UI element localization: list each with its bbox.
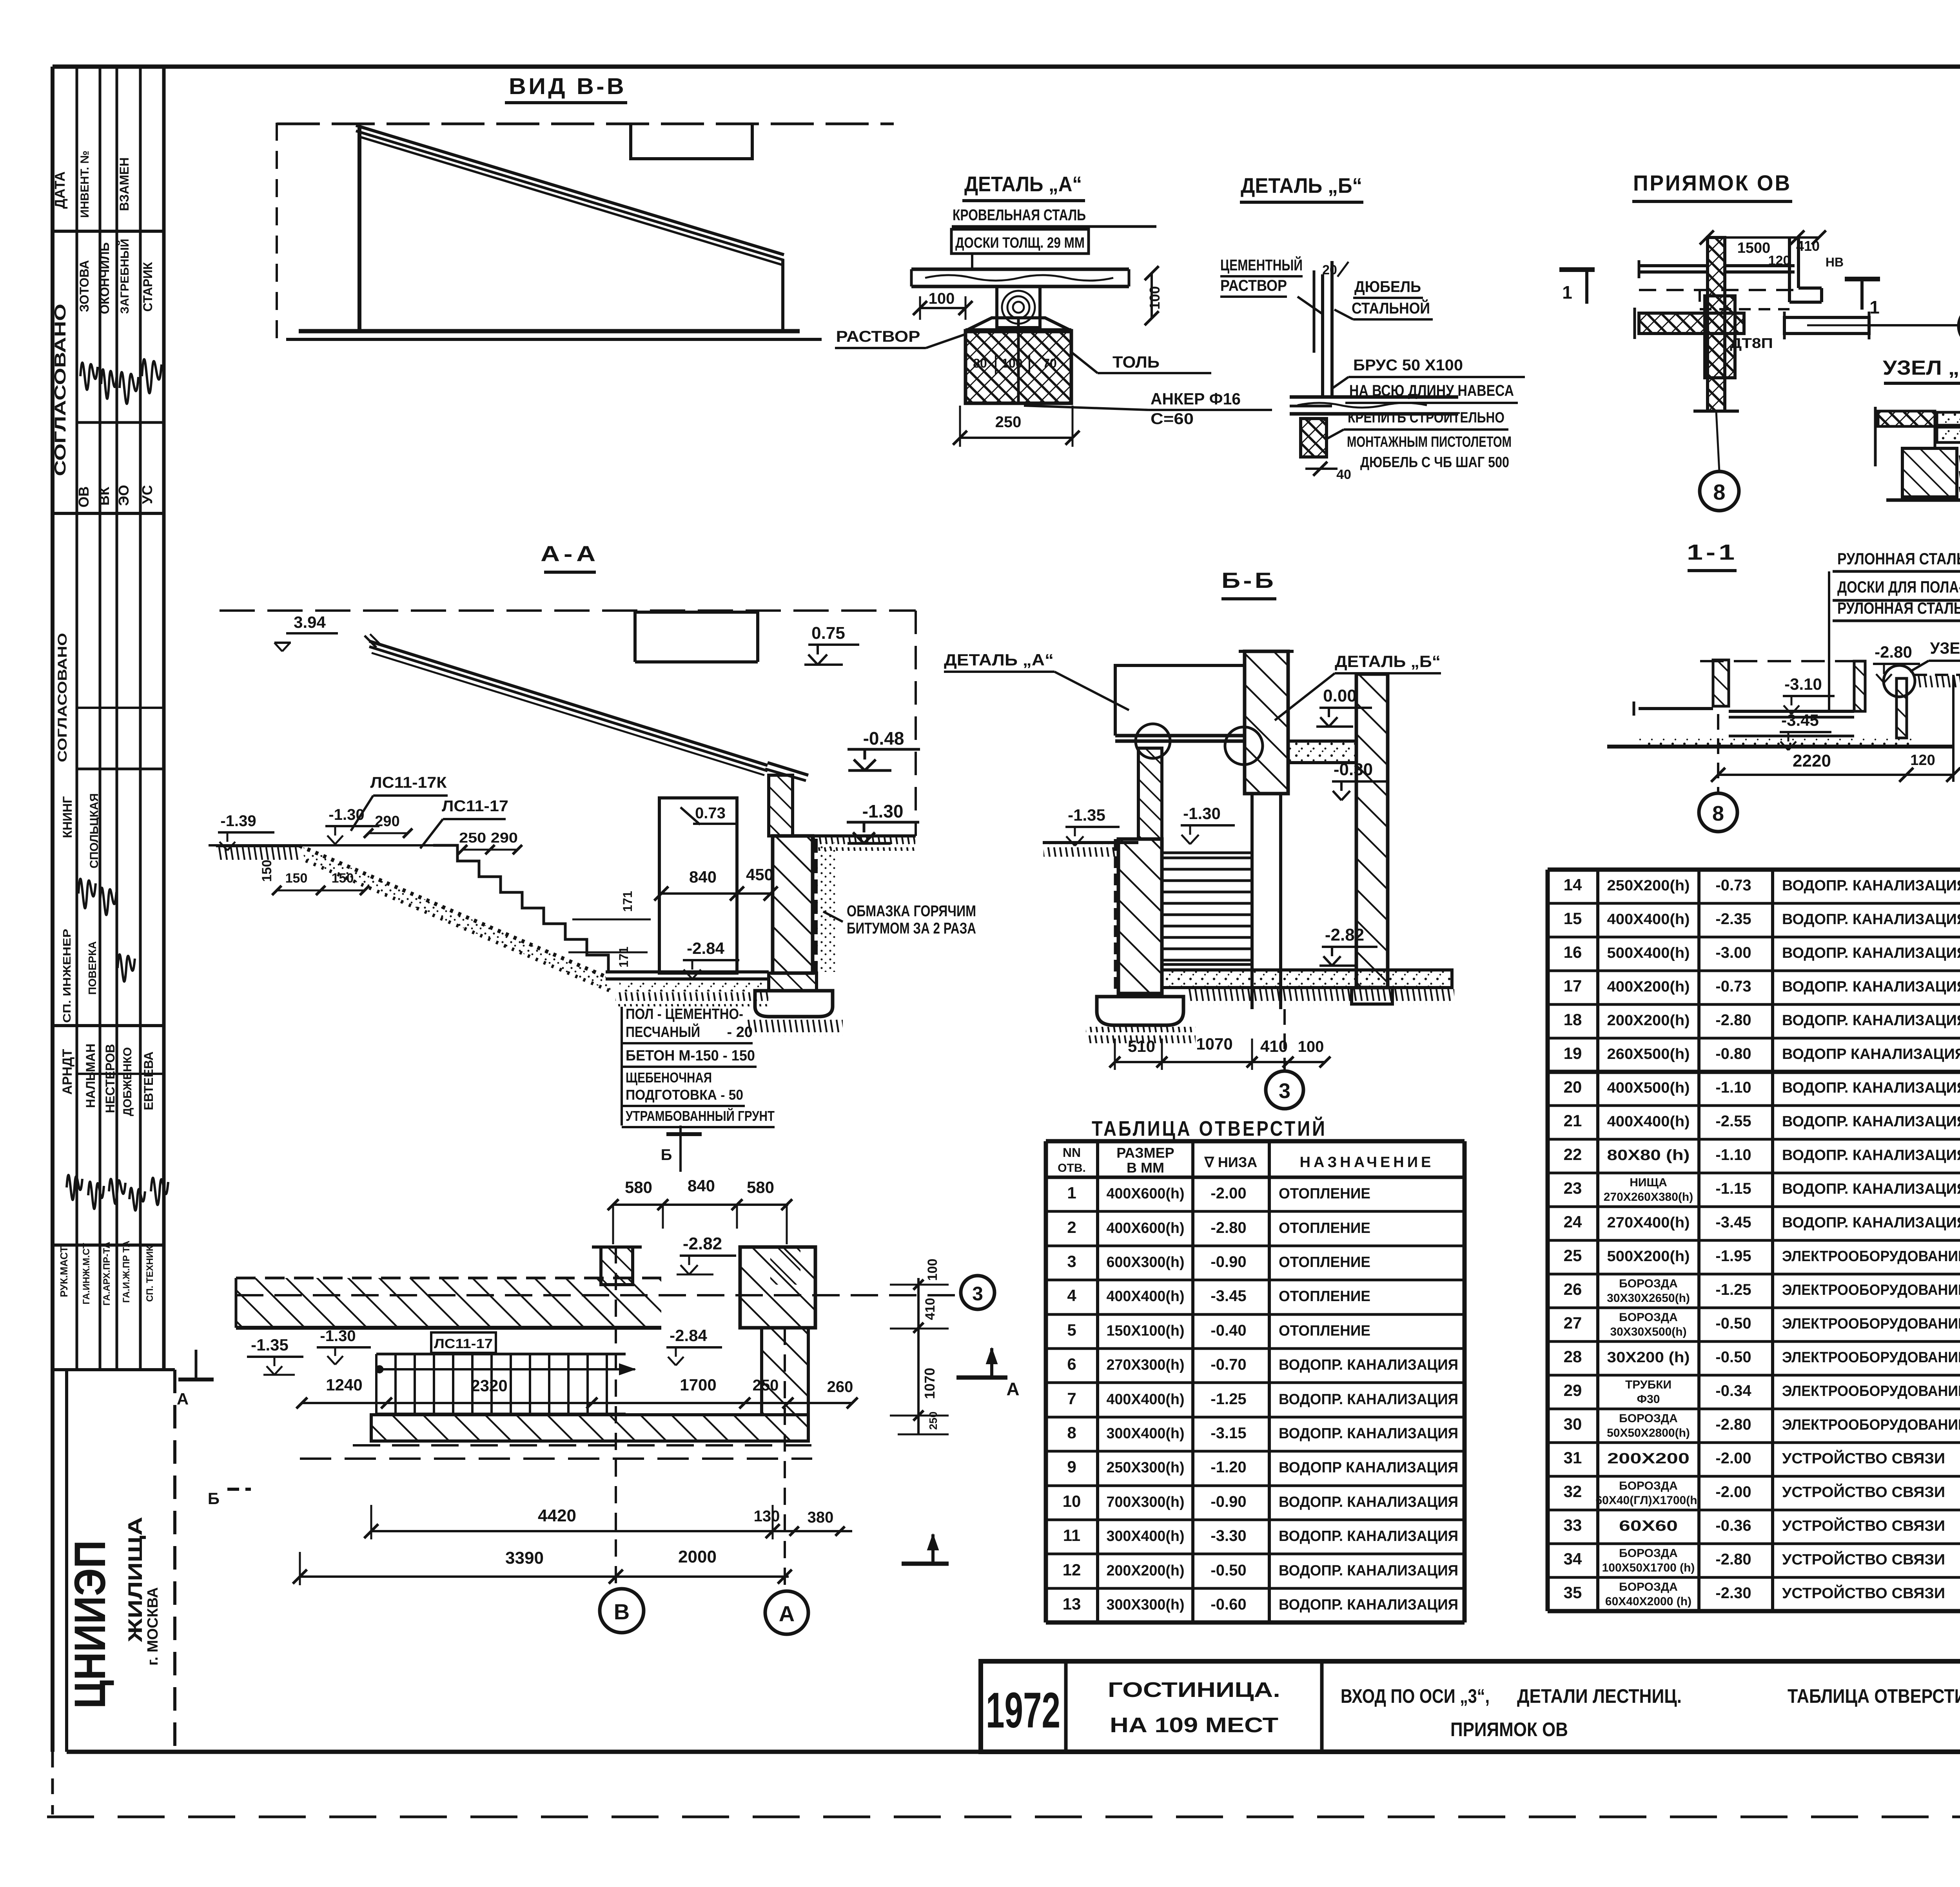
strip signatures lower [118,954,135,981]
svg-text:50Х50Х2800(h): 50Х50Х2800(h) [1607,1427,1690,1439]
section A-A pit rectangle [659,798,737,973]
svg-text:30: 30 [1564,1415,1582,1433]
svg-text:2000: 2000 [678,1547,717,1566]
table 1 rows 1-13 [1046,1139,1465,1144]
svg-text:ЭЛЕКТРООБОРУДОВАНИЕ: ЭЛЕКТРООБОРУДОВАНИЕ [1782,1417,1960,1433]
svg-text:19: 19 [1564,1044,1582,1062]
svg-text:ТАБЛИЦА ОТВЕРСТИЙ.: ТАБЛИЦА ОТВЕРСТИЙ. [1788,1685,1960,1707]
table 2 thick separator after row 19 [1548,1070,1960,1074]
svg-text:ЦНИИЭП: ЦНИИЭП [65,1540,114,1709]
svg-text:ВК: ВК [96,486,112,506]
svg-text:300Х300(h): 300Х300(h) [1107,1597,1185,1613]
svg-text:20: 20 [1564,1078,1582,1096]
svg-text:ИНВЕНТ. №: ИНВЕНТ. № [78,150,91,218]
uzel A end verticals [1874,407,1877,466]
strip signatures upper [80,363,98,390]
svg-text:Ф30: Ф30 [1637,1393,1660,1406]
svg-text:-1.30: -1.30 [328,806,364,823]
svg-text:10: 10 [1063,1492,1081,1510]
svg-text:-3.10: -3.10 [1784,675,1822,693]
svg-text:11: 11 [1063,1526,1080,1544]
svg-text:8: 8 [1713,480,1725,504]
svg-text:200Х200(h): 200Х200(h) [1107,1563,1185,1579]
svg-text:-3.45: -3.45 [1781,711,1819,729]
sheet frame top border [53,65,1960,69]
detail A block with ring grain [997,286,1040,328]
svg-text:24: 24 [1564,1213,1582,1231]
svg-text:-2.00: -2.00 [1715,1450,1751,1467]
svg-text:-3.30: -3.30 [1210,1527,1246,1544]
svg-text:-0.34: -0.34 [1715,1382,1751,1399]
plan right dim vertical [917,1278,920,1329]
svg-text:-1.20: -1.20 [1210,1459,1246,1476]
section A-A datum dashed line [220,609,916,612]
title block cell separators [1064,1661,1068,1752]
svg-text:250Х300(h): 250Х300(h) [1107,1459,1185,1476]
svg-text:14: 14 [1564,876,1582,894]
svg-text:ГА.АРХ.ПР-ТА: ГА.АРХ.ПР-ТА [102,1242,112,1306]
svg-text:250Х200(h): 250Х200(h) [1607,877,1690,894]
svg-text:В: В [614,1599,630,1624]
svg-text:-2.80: -2.80 [1210,1219,1246,1236]
svg-text:-1.30: -1.30 [862,801,904,821]
section B-B right wall footing [1352,988,1392,1004]
svg-text:-2.80: -2.80 [1875,643,1912,661]
svg-text:КНИНГ: КНИНГ [60,796,74,838]
svg-text:ЩЕБЕНОЧНАЯ: ЩЕБЕНОЧНАЯ [626,1069,712,1086]
svg-text:-0.48: -0.48 [863,728,904,749]
sheet frame left border [51,67,54,1752]
svg-text:8: 8 [1067,1423,1076,1442]
svg-text:А: А [177,1390,189,1408]
svg-text:ЛС11-17К: ЛС11-17К [370,774,447,791]
strip signatures block [67,1175,82,1200]
svg-text:ВОДОПР. КАНАЛИЗАЦИЯ: ВОДОПР. КАНАЛИЗАЦИЯ [1782,877,1960,894]
section A-A building wall dashed vertical [915,611,917,836]
svg-text:840: 840 [689,868,717,886]
svg-text:БЕТОН М-150 - 150: БЕТОН М-150 - 150 [626,1048,755,1064]
svg-text:ВОДОПР. КАНАЛИЗАЦИЯ: ВОДОПР. КАНАЛИЗАЦИЯ [1782,979,1960,995]
svg-text:БИТУМОМ ЗА 2 РАЗА: БИТУМОМ ЗА 2 РАЗА [847,920,976,937]
section A-A footing pad [755,991,833,1017]
svg-text:ЛС11-17: ЛС11-17 [434,1336,493,1351]
section A-A roof left end ticks [365,636,376,647]
svg-text:410: 410 [923,1298,938,1320]
svg-text:ВОДОПР. КАНАЛИЗАЦИЯ: ВОДОПР. КАНАЛИЗАЦИЯ [1279,1391,1458,1408]
svg-text:60Х60: 60Х60 [1619,1518,1678,1534]
section A-A bottom floor lines [606,970,769,973]
svg-text:840: 840 [688,1176,715,1195]
svg-text:ВОДОПР КАНАЛИЗАЦИЯ: ВОДОПР КАНАЛИЗАЦИЯ [1782,1046,1960,1062]
svg-text:РАСТВОР: РАСТВОР [1220,277,1287,294]
svg-text:МОНТАЖНЫМ ПИСТОЛЕТОМ: МОНТАЖНЫМ ПИСТОЛЕТОМ [1347,434,1512,450]
section 1-1 title underline [1688,569,1737,572]
svg-text:Б-Б: Б-Б [1221,568,1276,593]
svg-text:100: 100 [1298,1038,1324,1055]
svg-text:В ММ: В ММ [1127,1160,1164,1176]
svg-text:40: 40 [1336,467,1351,482]
plan axis vertical B [615,1246,617,1589]
section B-B ground left [1043,841,1138,844]
svg-text:17: 17 [1564,977,1582,995]
section A-A ground line right [813,834,916,837]
view V-V notch rectangle [631,125,752,159]
svg-text:СПОЛЬЦКАЯ: СПОЛЬЦКАЯ [88,793,101,868]
svg-text:ОТОПЛЕНИЕ: ОТОПЛЕНИЕ [1279,1254,1370,1271]
plan right wall down [762,1328,808,1415]
detail B hatched support block [1301,419,1327,457]
section A-A canopy rectangle [635,612,758,662]
svg-text:БОРОЗДА: БОРОЗДА [1619,1412,1678,1425]
svg-text:-1.30: -1.30 [1183,804,1221,823]
svg-text:ПЕСЧАНЫЙ: ПЕСЧАНЫЙ [626,1023,700,1040]
TSNIIEP box [65,1370,68,1752]
svg-text:АРНДТ: АРНДТ [60,1049,75,1095]
section 1-1 left pier hatched [1713,660,1729,706]
svg-text:ОВ: ОВ [76,486,92,508]
svg-text:16: 16 [1564,943,1582,961]
section A-A dashed line above stairs [209,844,433,847]
svg-text:ПРИЯМОК ОВ: ПРИЯМОК ОВ [1633,170,1791,195]
priyamok leader to node I [1869,324,1959,326]
plan axis dashed to circle 3 [236,1294,955,1296]
svg-text:1: 1 [1562,282,1572,303]
svg-text:ДЕТАЛЬ „Б“: ДЕТАЛЬ „Б“ [1241,174,1362,198]
svg-text:ВОДОПР. КАНАЛИЗАЦИЯ: ВОДОПР. КАНАЛИЗАЦИЯ [1279,1597,1458,1613]
svg-text:-2.80: -2.80 [1715,1551,1751,1568]
plan bottom wall band hatched [371,1415,808,1441]
svg-text:30Х200 (h): 30Х200 (h) [1607,1349,1690,1366]
svg-text:-0.50: -0.50 [1210,1562,1246,1579]
svg-text:НАЛЬМАН: НАЛЬМАН [83,1044,98,1108]
section B-B bitumen wavy left [1114,839,1118,993]
svg-text:УТРАМБОВАННЫЙ ГРУНТ: УТРАМБОВАННЫЙ ГРУНТ [626,1108,775,1124]
svg-text:25: 25 [1564,1246,1582,1265]
svg-text:-0.80: -0.80 [1715,1045,1751,1062]
svg-text:8: 8 [1712,802,1724,825]
svg-text:ОКОНЧИЛЬ: ОКОНЧИЛЬ [98,242,112,314]
svg-text:60Х40(ГЛ)Х1700(h): 60Х40(ГЛ)Х1700(h) [1595,1494,1701,1507]
svg-text:ВОДОПР. КАНАЛИЗАЦИЯ: ВОДОПР. КАНАЛИЗАЦИЯ [1279,1357,1458,1373]
svg-text:ОБМАЗКА ГОРЯЧИМ: ОБМАЗКА ГОРЯЧИМ [847,903,976,920]
svg-text:Б: Б [208,1489,220,1508]
svg-text:1700: 1700 [680,1376,716,1394]
svg-text:500Х400(h): 500Х400(h) [1607,945,1690,961]
section 1-1 top dashed line [1700,660,1864,662]
svg-text:-1.95: -1.95 [1715,1247,1751,1265]
svg-text:80Х80 (h): 80Х80 (h) [1607,1147,1690,1164]
svg-text:250: 250 [753,1377,779,1394]
section A-A bitumen coat right [813,839,818,972]
detail B leader cement [1298,297,1322,314]
svg-text:580: 580 [625,1178,652,1196]
section B-B title underline [1221,597,1276,600]
svg-text:НВ: НВ [1826,255,1844,269]
detail A leader to board [971,254,973,270]
svg-text:СОГЛАСОВАНО: СОГЛАСОВАНО [52,304,69,476]
priyamok leader to axis 8 [1716,411,1719,471]
svg-text:270Х260Х380(h): 270Х260Х380(h) [1604,1191,1693,1204]
section 1-1 right dim vertical [1952,675,1955,782]
priyamok section mark 1 right [1845,277,1880,281]
svg-text:-1.15: -1.15 [1715,1180,1751,1197]
svg-text:380: 380 [808,1509,834,1526]
svg-text:35: 35 [1564,1583,1582,1602]
table 2 rows 14-35 [1548,868,1960,872]
view V-V left wall [358,128,361,332]
svg-text:ЭЛЕКТРООБОРУДОВАНИЕ: ЭЛЕКТРООБОРУДОВАНИЕ [1782,1282,1960,1298]
svg-text:СОГЛАСОВАНО: СОГЛАСОВАНО [55,633,69,762]
svg-text:270Х300(h): 270Х300(h) [1107,1357,1185,1373]
section 1-1 base line [1607,745,1953,749]
svg-text:ОТОПЛЕНИЕ: ОТОПЛЕНИЕ [1279,1220,1370,1236]
svg-text:ВОДОПР. КАНАЛИЗАЦИЯ: ВОДОПР. КАНАЛИЗАЦИЯ [1782,1181,1960,1197]
svg-text:ОТОПЛЕНИЕ: ОТОПЛЕНИЕ [1279,1288,1370,1305]
svg-text:80: 80 [973,356,987,370]
svg-text:580: 580 [747,1178,774,1196]
svg-text:-3.00: -3.00 [1715,944,1751,961]
svg-text:20: 20 [1322,263,1337,277]
view V-V top dashed line [277,123,894,125]
svg-text:А: А [779,1601,795,1626]
plan axis circle A [765,1591,808,1634]
svg-text:3: 3 [1067,1252,1076,1271]
plan right pier block [740,1247,815,1328]
svg-text:-1.30: -1.30 [320,1327,356,1345]
section 1-1 axis dashed [1717,714,1719,793]
section B-B retaining wall hatched [1118,839,1162,993]
priyamok axis circle 8 [1700,471,1739,511]
section A-A slope stipple band [299,846,606,977]
priyamok node circle I [1959,306,1960,346]
svg-text:1: 1 [1869,297,1880,317]
view V-V base double line [299,329,800,334]
plan left pier stem [601,1247,633,1285]
svg-text:ЛС11-17: ЛС11-17 [442,798,508,815]
svg-text:УСТРОЙСТВО СВЯЗИ: УСТРОЙСТВО СВЯЗИ [1782,1483,1945,1501]
svg-text:290: 290 [375,813,399,830]
svg-text:270Х400(h): 270Х400(h) [1607,1214,1690,1231]
svg-text:- 20: - 20 [727,1024,753,1040]
svg-text:ВОДОПР КАНАЛИЗАЦИЯ: ВОДОПР КАНАЛИЗАЦИЯ [1279,1459,1458,1476]
svg-text:5: 5 [1067,1321,1076,1339]
svg-text:РУЛОННАЯ СТАЛЬ-1 ММ: РУЛОННАЯ СТАЛЬ-1 ММ [1837,599,1960,617]
svg-text:БРУС 50 Х100: БРУС 50 Х100 [1353,357,1463,374]
svg-text:ДОСКИ ДЛЯ ПОЛА-29 ММ: ДОСКИ ДЛЯ ПОЛА-29 ММ [1837,578,1960,596]
section B-B plank wall [1162,853,1252,964]
svg-text:-0.40: -0.40 [1210,1322,1246,1339]
svg-text:400Х200(h): 400Х200(h) [1607,979,1690,995]
svg-text:400Х500(h): 400Х500(h) [1607,1080,1690,1096]
sheet frame bottom border [67,1750,1960,1754]
svg-text:-0.90: -0.90 [1210,1253,1246,1271]
svg-text:400Х400(h): 400Х400(h) [1107,1391,1185,1408]
svg-text:34: 34 [1564,1550,1582,1568]
svg-text:171: 171 [617,946,631,967]
svg-text:21: 21 [1564,1111,1582,1130]
svg-text:ЗОТОВА: ЗОТОВА [77,260,91,312]
section B-B floor slab speckled [1288,741,1356,763]
svg-text:700Х300(h): 700Х300(h) [1107,1494,1185,1510]
svg-text:БОРОЗДА: БОРОЗДА [1619,1581,1678,1593]
section B-B central wall shaft [1250,794,1254,1009]
svg-text:-0.90: -0.90 [1210,1493,1246,1510]
title strip row separators [53,230,164,233]
section A-A roof slope lines [369,641,768,765]
svg-text:г. МОСКВА: г. МОСКВА [145,1587,161,1666]
view V-V title underline [505,101,627,104]
svg-text:400Х600(h): 400Х600(h) [1107,1185,1185,1202]
svg-text:-1.10: -1.10 [1715,1146,1751,1164]
section A-A ground line left [216,844,299,847]
plan section mark lower right [902,1562,949,1566]
svg-text:400Х400(h): 400Х400(h) [1607,1113,1690,1130]
svg-text:ДТ8П: ДТ8П [1730,335,1773,351]
priyamok steel plank element [1784,317,1869,334]
svg-text:НА 109 МЕСТ: НА 109 МЕСТ [1110,1713,1278,1737]
svg-text:А-А: А-А [541,541,599,566]
plan axis circle B [600,1589,644,1633]
section B-B central wall hatched [1245,651,1288,794]
svg-text:-2.82: -2.82 [1325,925,1364,944]
svg-text:-0.60: -0.60 [1210,1596,1246,1613]
uzel A hatched block [1902,448,1957,497]
svg-text:1-1: 1-1 [1687,540,1738,564]
svg-text:УСТРОЙСТВО СВЯЗИ: УСТРОЙСТВО СВЯЗИ [1782,1550,1945,1568]
section B-B footing pad [1097,997,1183,1025]
svg-text:БОРОЗДА: БОРОЗДА [1619,1311,1678,1324]
detail A title underline [962,199,1085,202]
priyamok top wall double line [1639,264,1708,267]
svg-text:НА ВСЮ ДЛИНУ НАВЕСА: НА ВСЮ ДЛИНУ НАВЕСА [1349,382,1514,399]
section B-B bottom floor speckled [1162,970,1452,988]
plan top wall band hatched [236,1278,661,1328]
svg-text:12: 12 [1063,1561,1081,1579]
svg-text:ТРУБКИ: ТРУБКИ [1625,1378,1671,1391]
svg-text:6: 6 [1067,1355,1076,1373]
section B cut mark below A-A [679,1126,682,1172]
svg-text:15: 15 [1564,909,1582,928]
svg-text:ГА.ИНЖ.М.СТ: ГА.ИНЖ.М.СТ [81,1243,92,1304]
section 1-1 leader vertical [1828,571,1830,710]
plan section mark A right [956,1376,1007,1380]
svg-text:УСТРОЙСТВО СВЯЗИ: УСТРОЙСТВО СВЯЗИ [1782,1449,1945,1467]
svg-text:РУК.МАСТ: РУК.МАСТ [58,1246,70,1297]
svg-text:1070: 1070 [1196,1035,1232,1053]
svg-text:26: 26 [1564,1280,1582,1298]
svg-text:22: 22 [1564,1145,1582,1164]
svg-text:ЭЛЕКТРООБОРУДОВАНИЕ: ЭЛЕКТРООБОРУДОВАНИЕ [1782,1248,1960,1265]
svg-text:ЕВТЕЕВА: ЕВТЕЕВА [142,1051,156,1110]
section B-B detail circle left [1136,724,1170,758]
svg-text:33: 33 [1564,1516,1582,1534]
sheet trim line bottom dashed [47,1816,1960,1818]
svg-text:100: 100 [1002,356,1022,370]
svg-text:3390: 3390 [505,1548,544,1568]
uzel A step lines [1878,425,1937,428]
svg-text:-2.84: -2.84 [687,939,724,957]
svg-text:27: 27 [1564,1314,1582,1332]
svg-text:60Х40Х2000 (h): 60Х40Х2000 (h) [1605,1595,1691,1608]
section A-A stairs flight profile [433,845,608,971]
svg-text:29: 29 [1564,1381,1582,1399]
section 1-1 bench floor [1729,710,1854,713]
svg-text:7: 7 [1067,1389,1076,1408]
svg-text:ВОДОПР. КАНАЛИЗАЦИЯ: ВОДОПР. КАНАЛИЗАЦИЯ [1782,1147,1960,1164]
svg-text:Б: Б [661,1146,672,1164]
detail B angle horizontal leg [1290,405,1332,408]
svg-text:9: 9 [1067,1457,1076,1476]
svg-text:-1.35: -1.35 [251,1336,289,1354]
svg-text:ОТОПЛЕНИЕ: ОТОПЛЕНИЕ [1279,1323,1370,1339]
svg-text:ТОЛЬ: ТОЛЬ [1112,353,1160,371]
svg-text:ПОЛ - ЦЕМЕНТНО-: ПОЛ - ЦЕМЕНТНО- [626,1006,743,1022]
svg-text:4420: 4420 [538,1506,576,1525]
svg-text:УСТРОЙСТВО СВЯЗИ: УСТРОЙСТВО СВЯЗИ [1782,1584,1945,1602]
section 1-1 base speckled strip [1639,738,1917,747]
svg-text:400Х600(h): 400Х600(h) [1107,1220,1185,1236]
section B-B detail circle right [1225,727,1263,765]
svg-text:ВОДОПР. КАНАЛИЗАЦИЯ: ВОДОПР. КАНАЛИЗАЦИЯ [1279,1563,1458,1579]
strip signatures middle [78,879,96,908]
priyamok wall dashed inner line [1639,289,1795,291]
uzel A bottom line [1886,498,1960,502]
section B-B axis line to circle 3 [1283,1009,1286,1071]
section B-B axis circle 3 [1266,1071,1303,1109]
svg-text:28: 28 [1564,1347,1582,1366]
plan axis vertical A [784,1328,786,1591]
section A-A roof right edge [768,763,808,775]
svg-text:30Х30Х500(h): 30Х30Х500(h) [1610,1325,1686,1338]
plan axis circle 3 [961,1276,995,1309]
uzel A top crosshatch band [1878,411,1935,426]
svg-text:ВОДОПР. КАНАЛИЗАЦИЯ: ВОДОПР. КАНАЛИЗАЦИЯ [1279,1494,1458,1510]
svg-text:УСТРОЙСТВО СВЯЗИ: УСТРОЙСТВО СВЯЗИ [1782,1517,1945,1534]
svg-text:-2.55: -2.55 [1715,1113,1751,1130]
svg-text:СП. ТЕХНИК: СП. ТЕХНИК [145,1245,155,1302]
svg-text:ПОВЕРКА: ПОВЕРКА [86,941,98,995]
svg-text:0.73: 0.73 [695,805,726,822]
svg-text:2220: 2220 [1793,751,1831,770]
section A-A wall main hatched [773,836,813,973]
svg-text:ДОБЖЕНКО: ДОБЖЕНКО [121,1047,134,1116]
svg-text:ВОДОПР. КАНАЛИЗАЦИЯ: ВОДОПР. КАНАЛИЗАЦИЯ [1782,1113,1960,1130]
section B-B grass under footing [1086,1027,1196,1043]
svg-text:500Х200(h): 500Х200(h) [1607,1248,1690,1265]
svg-text:БОРОЗДА: БОРОЗДА [1619,1479,1678,1492]
section A-A wall upper hatched [769,775,793,836]
svg-text:120: 120 [1910,752,1935,769]
priyamok section mark 1 left [1559,267,1595,272]
section 1-1 left floor [1639,707,1713,710]
svg-text:АНКЕР Ф16: АНКЕР Ф16 [1151,390,1241,408]
detail A label doski box [951,229,1089,254]
section A-A tread dim lines [572,919,651,921]
svg-text:ЗАГРЕБНЫЙ: ЗАГРЕБНЫЙ [118,239,131,314]
svg-text:150Х100(h): 150Х100(h) [1107,1323,1185,1339]
svg-text:300Х400(h): 300Х400(h) [1107,1425,1185,1442]
priyamok crosshatch center block [1705,296,1735,378]
svg-text:-0.36: -0.36 [1715,1517,1751,1534]
svg-text:ВХОД ПО ОСИ „3“,: ВХОД ПО ОСИ „3“, [1341,1685,1490,1707]
svg-text:23: 23 [1564,1179,1582,1197]
svg-text:NN: NN [1063,1146,1081,1160]
sheet frame left border lower dashed [51,1752,54,1814]
svg-text:2320: 2320 [471,1376,507,1395]
svg-text:0.75: 0.75 [811,624,845,643]
svg-text:450: 450 [746,865,773,884]
plan stair flight treads [376,1354,626,1414]
